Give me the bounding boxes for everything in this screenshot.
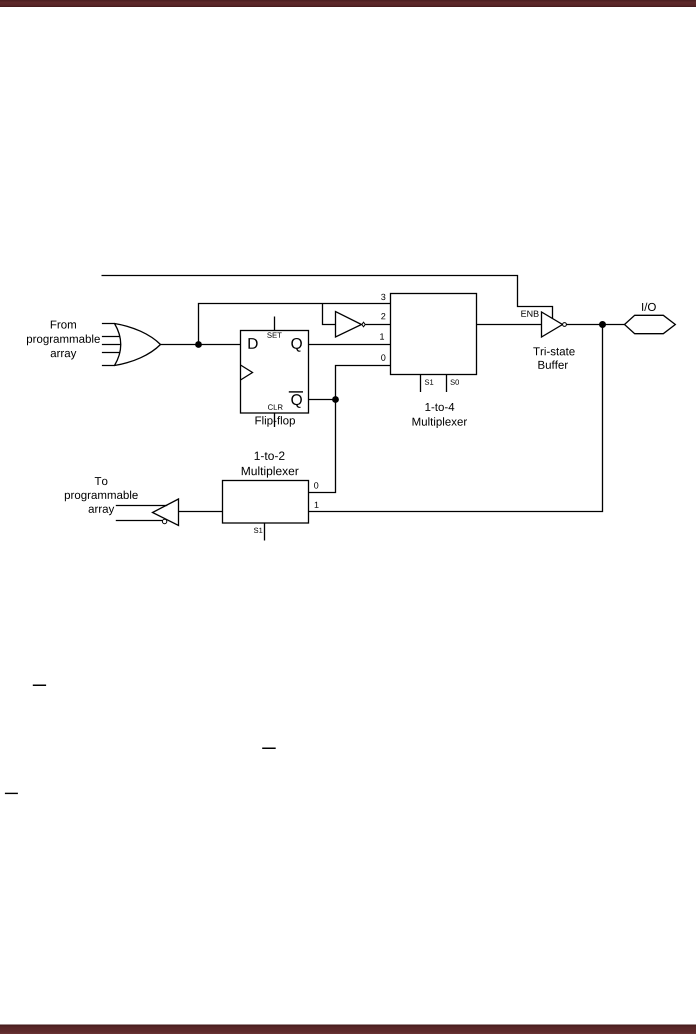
junction dot B [332,396,339,403]
wire: buffer output to programmable array [116,505,167,507]
label: mux input 0 [381,354,385,360]
1-to-2 multiplexer U5 box [223,481,309,524]
S1 select stub of 1-to-2 mux [264,523,266,541]
label: 1-to-4 [425,403,454,411]
feedback buffer U6 (to array) [153,499,179,526]
or-gate input stubs [102,324,121,366]
flip-flop U1 box [241,331,309,414]
wire: mux input 0 down to 1-to-2 mux input 0 [309,366,391,493]
Q-bar overline [289,391,303,392]
label: Flip-flop [255,416,294,427]
junction dot A [195,341,202,348]
wire: tri-state output to I/O pad [566,324,624,326]
label: S0 [450,379,459,384]
label: I/O [642,303,656,311]
S1 select stub [420,375,422,393]
label: Tri-state [533,347,574,355]
label: Multiplexer (1-to-4) [413,417,467,428]
wire: Q output to mux input 1 [309,344,391,346]
junction dot C [599,321,606,328]
label: ENB [521,311,538,317]
label: D [248,338,257,349]
1-to-4 multiplexer U3 box [391,294,477,375]
label: Buffer [538,360,568,368]
label: From programmable array [51,321,76,329]
label: mux input 2 [381,313,385,319]
wire: or-gate output to flip-flop D [161,344,241,346]
stray overline mark 1 [33,685,46,687]
label: To programmable array [95,477,108,485]
label: S1 [425,379,433,384]
wire: 1-to-2 mux output to feedback buffer [179,511,223,513]
label: mux input 3 [381,294,385,300]
wire: mux output to tri-state buffer [477,324,542,326]
flip-flop SET stub [274,317,276,331]
label: Multiplexer (1-to-2) [242,466,299,477]
buffer U2 output diamond [362,322,365,327]
feedback buffer enable bubble [162,519,166,523]
wire: I/O junction down to 1-to-2 mux input 1 [309,325,603,512]
flip-flop clock triangle [241,365,253,380]
label: Q [291,338,302,352]
wire: buffer enable line from programmable array [116,520,163,522]
wire: buffer output to mux input 2 [365,324,390,326]
label: SET [267,332,281,337]
label: mux input 1 [380,333,384,339]
wire: top feedback line to ENB [102,276,553,319]
label: 1-to-2 mux input 1 [315,502,319,508]
buffer U2 (clock buffer) [336,312,362,338]
label: CLR [268,404,283,409]
or-gate G1 [115,324,161,366]
wire: branch down to buffer input [323,304,336,325]
tri-state output bubble [563,323,567,327]
tri-state buffer U4 [542,312,563,337]
label: 1-to-2 mux input 0 [314,482,318,488]
label: Q-bar [291,394,302,408]
label: 1-to-2 [255,452,285,461]
wire: junction up to mux input 3 [199,304,391,345]
S0 select stub [446,375,448,393]
wire: Q-bar output to junction [309,399,336,401]
I/O pad hexagon [625,315,676,333]
label: S1 (1-to-2 mux) [254,528,262,533]
flip-flop CLR stub [274,413,276,428]
stray overline mark 2 [262,748,276,750]
stray overline mark 3 [5,793,18,794]
